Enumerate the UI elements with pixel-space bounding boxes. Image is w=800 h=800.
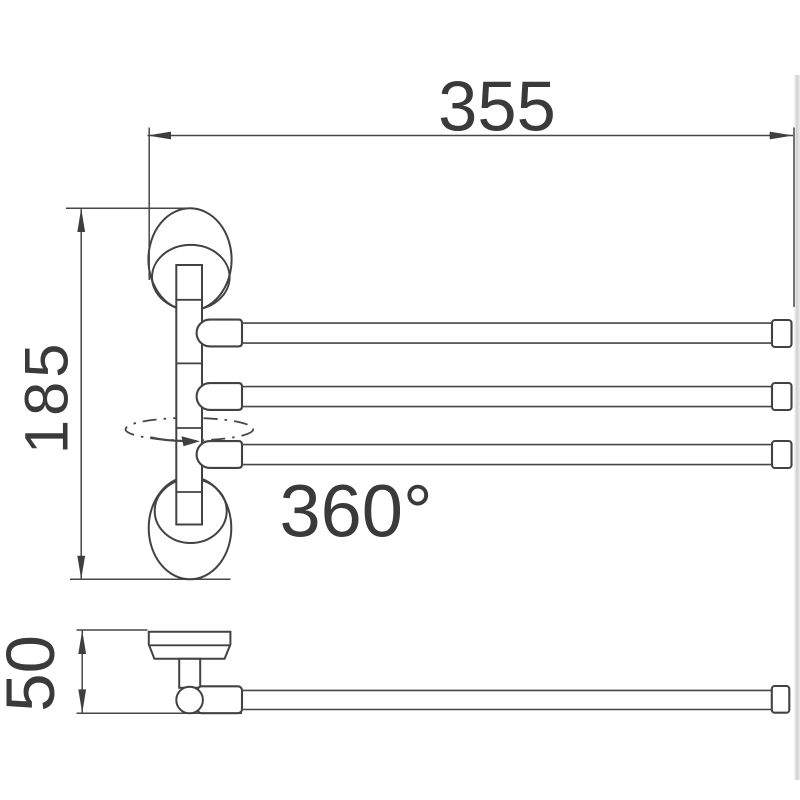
svg-text:50: 50 <box>0 635 69 712</box>
svg-text:360°: 360° <box>280 469 433 552</box>
svg-text:185: 185 <box>13 339 82 454</box>
svg-text:355: 355 <box>438 66 556 145</box>
